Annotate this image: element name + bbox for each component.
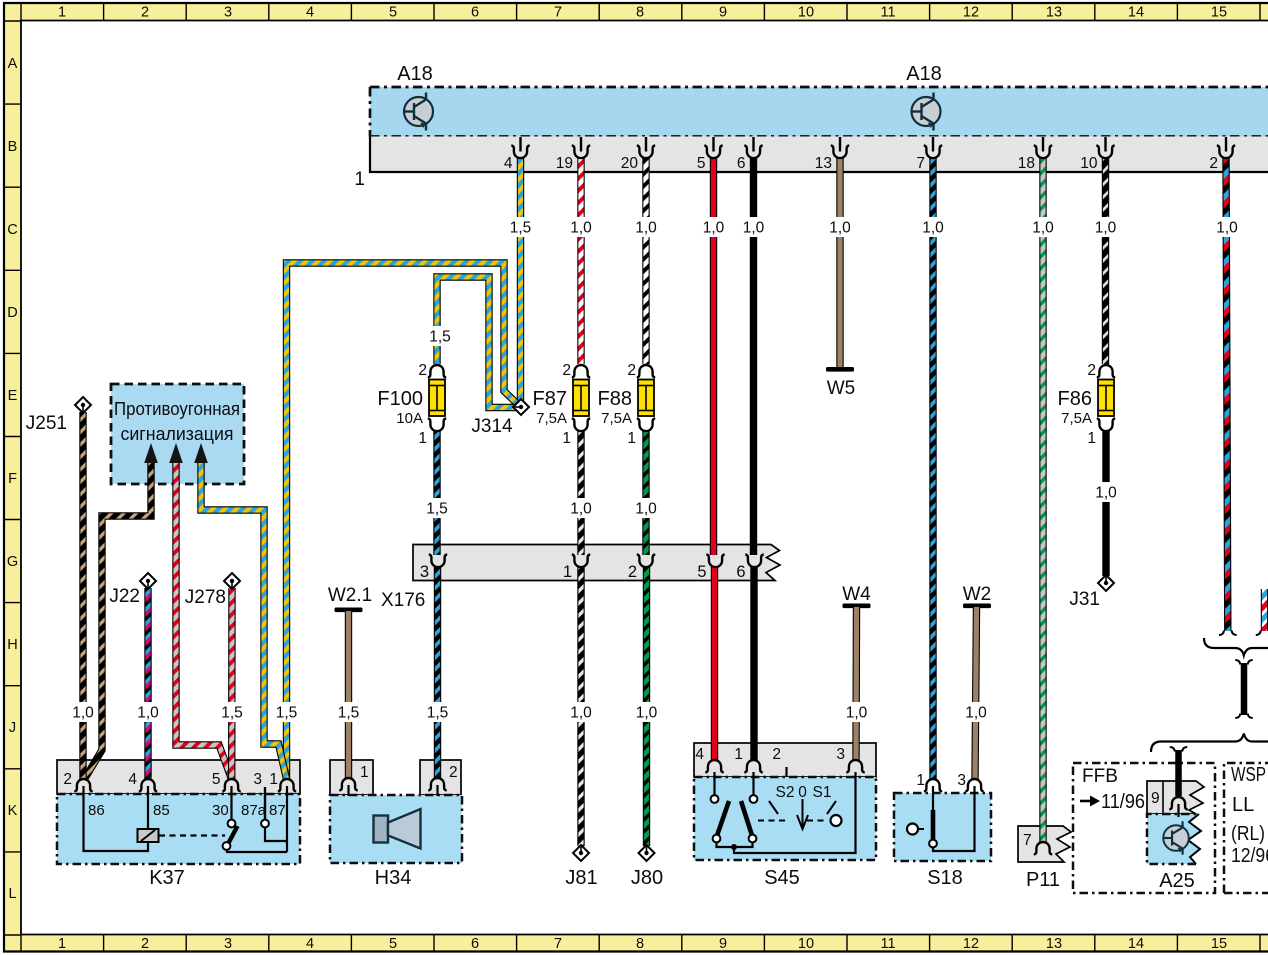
connector J81: [573, 845, 589, 861]
connector J22: [140, 573, 156, 589]
wire size 1,0 pin20: [634, 217, 658, 237]
svg-text:S1: S1: [813, 784, 832, 801]
wire ro/sw/bl strip1 pin 2 down: [1226, 157, 1228, 631]
svg-text:S45: S45: [764, 867, 800, 889]
svg-text:K37: K37: [149, 867, 185, 889]
svg-text:15: 15: [1211, 936, 1227, 952]
strip 1 pin terminals: [511, 146, 529, 159]
connector J80: [639, 845, 655, 861]
wire size 1,0 pin6: [742, 217, 766, 237]
svg-text:11/96: 11/96: [1101, 791, 1145, 813]
svg-text:1: 1: [627, 430, 636, 447]
svg-text:13: 13: [815, 155, 832, 172]
svg-text:3: 3: [420, 563, 429, 581]
strip 1 pin numbers: [504, 137, 1226, 172]
wire black X176 pin 6 to S45 pin 1: [750, 567, 757, 760]
svg-text:J81: J81: [565, 867, 597, 889]
svg-text:G: G: [7, 554, 18, 570]
svg-text:2: 2: [449, 764, 458, 781]
svg-text:1,0: 1,0: [570, 220, 592, 237]
svg-text:6: 6: [736, 563, 745, 581]
svg-text:F100: F100: [377, 388, 423, 410]
wire size 1,0 pin18: [1031, 217, 1055, 237]
wire size 1,5 at pin4: [509, 217, 533, 237]
svg-text:14: 14: [1128, 5, 1144, 21]
svg-text:J22: J22: [109, 586, 140, 607]
wire brown W2.1 to H34 pin 1: [345, 611, 352, 778]
wire bu/ge alarm box to K37 pin 1: [201, 455, 287, 779]
wire ro/gr alarm box to K37 pin 5: [176, 455, 232, 779]
svg-text:9: 9: [719, 936, 727, 952]
svg-text:87a: 87a: [241, 802, 267, 819]
wire end hooks ro/sw/bl: [1219, 631, 1237, 636]
fuse F88: [598, 362, 656, 447]
svg-text:8: 8: [636, 936, 644, 952]
wire size 1,0 pin5: [702, 217, 726, 237]
svg-text:1: 1: [58, 936, 66, 952]
svg-text:D: D: [7, 305, 17, 321]
wire size 1,5 J278: [220, 702, 244, 722]
svg-text:2: 2: [63, 771, 72, 788]
A25 pin terminal: [1169, 797, 1187, 809]
svg-text:W2: W2: [963, 584, 992, 605]
brace gathering pin2/right wires: [1204, 638, 1268, 656]
svg-text:J: J: [9, 720, 16, 736]
terminal W2.1: [328, 585, 372, 606]
wire sw/bl strip1 pin 7 to S18 pin 1: [929, 157, 936, 779]
wire sw/bl F100 to X176 pin 3: [433, 431, 440, 555]
wire size under F87: [569, 498, 593, 518]
svg-text:1,0: 1,0: [570, 501, 592, 518]
svg-text:6: 6: [737, 155, 746, 172]
wire ro/gr from J278 to K37 pin 5: [228, 588, 236, 779]
svg-text:2: 2: [562, 362, 571, 379]
wire size 1,0 J22: [136, 702, 160, 722]
svg-text:J80: J80: [631, 867, 663, 889]
svg-text:7: 7: [916, 155, 925, 172]
control unit A18 band: [370, 87, 1268, 137]
svg-text:F86: F86: [1058, 388, 1092, 410]
fuse F100: [377, 362, 446, 447]
svg-text:86: 86: [88, 802, 105, 819]
svg-text:P11: P11: [1026, 869, 1060, 891]
control unit A25 connector box: [1147, 781, 1204, 814]
svg-text:FFB: FFB: [1082, 766, 1118, 787]
relay K37 box: [57, 760, 300, 864]
svg-text:1: 1: [360, 764, 369, 781]
svg-text:7,5A: 7,5A: [536, 410, 567, 427]
K37 relay coil: [138, 829, 226, 842]
wire bu/ge J314 to F100: [437, 277, 516, 408]
svg-text:1: 1: [1087, 430, 1096, 447]
fuse F87: [533, 362, 591, 447]
svg-text:1: 1: [269, 771, 278, 788]
svg-text:3: 3: [957, 772, 966, 789]
svg-text:1,0: 1,0: [635, 501, 657, 518]
svg-text:1,5: 1,5: [338, 705, 360, 722]
svg-text:1,0: 1,0: [1095, 485, 1117, 502]
svg-text:1,5: 1,5: [276, 705, 298, 722]
svg-text:1,0: 1,0: [137, 705, 159, 722]
connector J278: [224, 573, 240, 589]
wire sw/gr strip1 pin 10 to F86: [1102, 157, 1109, 364]
transistor symbol A18 left: [404, 93, 433, 131]
svg-text:4: 4: [695, 746, 704, 763]
svg-text:C: C: [7, 222, 17, 238]
wire size 1,0 pin7: [921, 217, 945, 237]
svg-text:1: 1: [734, 746, 743, 763]
A25 blue box: [1147, 814, 1201, 864]
K37 internal circuit: [84, 786, 288, 852]
alarm box arrow 1: [144, 443, 158, 463]
alarm box arrow 2: [169, 443, 183, 463]
transistor symbol A18 right: [912, 93, 941, 131]
svg-text:1,0: 1,0: [570, 705, 592, 722]
wire gn/sw F88 to X176 pin 2: [642, 431, 649, 555]
switch S45 box: [694, 743, 876, 860]
wire size to J80: [635, 702, 659, 722]
svg-text:1,0: 1,0: [922, 220, 944, 237]
svg-text:7: 7: [554, 5, 562, 21]
svg-text:1: 1: [563, 563, 572, 581]
wire size 1,0 pin19: [569, 217, 593, 237]
svg-text:2: 2: [1087, 362, 1096, 379]
wire sw/ws F87 to X176 pin 1: [577, 431, 584, 555]
svg-text:L: L: [8, 886, 16, 902]
svg-text:B: B: [8, 139, 18, 155]
svg-text:1,5: 1,5: [426, 501, 448, 518]
svg-text:7,5A: 7,5A: [1061, 410, 1092, 427]
svg-text:12: 12: [963, 5, 979, 21]
S45 pin terminals: [705, 760, 723, 772]
FFB arrow 11/96: [1080, 791, 1145, 813]
wire bu/ge from strip1 pin 4: [517, 157, 524, 401]
A25 feed wire: [1175, 750, 1182, 796]
svg-text:10: 10: [798, 5, 814, 21]
svg-text:1,0: 1,0: [635, 220, 657, 237]
svg-text:1: 1: [562, 430, 571, 447]
svg-text:13: 13: [1046, 5, 1062, 21]
svg-text:11: 11: [880, 936, 895, 952]
svg-text:10: 10: [798, 936, 814, 952]
svg-text:F: F: [8, 471, 17, 487]
connector J314: [513, 399, 529, 415]
svg-text:1,0: 1,0: [965, 705, 987, 722]
svg-text:3: 3: [253, 771, 262, 788]
wire size 1,0 pin13: [828, 217, 852, 237]
connector P11: [1018, 826, 1071, 862]
svg-text:J278: J278: [185, 587, 226, 608]
wire brown W2 to S18 pin 3: [975, 607, 977, 779]
svg-text:7,5A: 7,5A: [601, 410, 632, 427]
svg-text:3: 3: [224, 5, 232, 21]
wire size under F88: [634, 498, 658, 518]
svg-text:Противоугонная: Противоугонная: [114, 399, 240, 419]
X176 pin terminals: [429, 555, 447, 568]
svg-text:6: 6: [471, 5, 479, 21]
wire bl/ws/ro right edge: [1261, 589, 1268, 631]
svg-text:9: 9: [719, 5, 727, 21]
svg-text:F87: F87: [533, 388, 567, 410]
svg-text:5: 5: [697, 563, 706, 581]
wire brown strip1 pin 13 to W5: [836, 157, 843, 367]
wire ws/sw strip1 pin 20 to F88: [642, 157, 649, 364]
svg-text:15: 15: [1211, 5, 1227, 21]
svg-text:1,0: 1,0: [72, 705, 94, 722]
connector strip 1 under A18: [370, 137, 1268, 173]
svg-text:1,5: 1,5: [510, 220, 532, 237]
svg-text:1,0: 1,0: [743, 220, 765, 237]
svg-text:19: 19: [556, 155, 573, 172]
svg-text:A18: A18: [397, 63, 433, 85]
svg-text:2: 2: [628, 563, 637, 581]
wire size 1,5 at F100 branch: [428, 326, 452, 346]
svg-text:14: 14: [1128, 936, 1144, 952]
connector X176 bus bar: [413, 545, 780, 581]
wire end hook bl/ws/ro: [1256, 631, 1261, 636]
anti-theft alarm box (Protivougonnaya signalizatsiya): [111, 384, 244, 484]
svg-text:1: 1: [418, 430, 427, 447]
svg-text:X176: X176: [381, 590, 425, 611]
svg-text:87: 87: [269, 802, 286, 819]
svg-text:сигнализация: сигнализация: [121, 424, 234, 444]
svg-text:A25: A25: [1159, 870, 1195, 892]
svg-text:4: 4: [128, 771, 137, 788]
wire sw/bl X176 pin 3 to H34 pin 2: [434, 567, 441, 778]
svg-text:11: 11: [880, 5, 895, 21]
wire size 1,5 at K37 pin1: [275, 702, 299, 722]
svg-text:J314: J314: [471, 416, 513, 437]
terminal W5: [826, 367, 854, 372]
svg-text:(RL): (RL): [1231, 823, 1265, 845]
svg-text:1: 1: [354, 169, 365, 190]
svg-text:1: 1: [916, 772, 925, 789]
svg-text:13: 13: [1046, 936, 1062, 952]
svg-text:S2: S2: [776, 784, 795, 801]
svg-text:12/96: 12/96: [1231, 845, 1268, 867]
wire black strip1 pin 6 to S45 pin 1: [750, 157, 757, 555]
wire size to J81: [569, 702, 593, 722]
svg-text:F88: F88: [598, 388, 632, 410]
svg-text:10: 10: [1080, 155, 1098, 172]
P11 pin terminal: [1034, 842, 1052, 854]
switch S18 box: [894, 793, 991, 861]
svg-text:3: 3: [836, 746, 845, 763]
H34 pin terminals: [339, 778, 357, 790]
svg-text:A18: A18: [906, 63, 942, 85]
wire size 1,0 W4: [845, 702, 869, 722]
wire size 1,0 pin2: [1215, 217, 1239, 237]
svg-text:1,0: 1,0: [1032, 220, 1054, 237]
svg-text:2: 2: [141, 936, 149, 952]
svg-text:J31: J31: [1069, 589, 1100, 610]
S45 internal switch: [715, 772, 856, 853]
wire gn/gr strip1 pin 18 to P11: [1039, 157, 1046, 842]
svg-text:6: 6: [471, 936, 479, 952]
svg-text:5: 5: [389, 5, 397, 21]
fuse F86: [1058, 362, 1116, 447]
svg-text:0: 0: [798, 784, 807, 801]
svg-text:WSP: WSP: [1231, 764, 1266, 786]
wire mag/sw/cy from J22 to K37 pin 4: [144, 588, 151, 779]
svg-text:2: 2: [141, 5, 149, 21]
wire brown W4 to S45 pin 3: [852, 607, 860, 760]
H34 horn symbol: [374, 809, 421, 849]
wire ro/ws strip1 pin 19 to F87: [577, 157, 584, 364]
K37 terminal names: [88, 802, 286, 819]
svg-text:2: 2: [1209, 155, 1218, 172]
K37 switch contacts 30/87a/87: [223, 820, 269, 850]
svg-text:H: H: [7, 637, 17, 653]
wire black F86 to J31: [1102, 431, 1109, 576]
WSP dashed box: [1224, 763, 1268, 893]
brace distributing to A25/WSP: [1151, 734, 1268, 753]
svg-text:1,5: 1,5: [429, 329, 451, 346]
svg-text:W2.1: W2.1: [328, 585, 372, 606]
svg-text:7: 7: [554, 936, 562, 952]
svg-text:4: 4: [306, 936, 314, 952]
svg-text:9: 9: [1151, 790, 1160, 807]
alarm box arrow 3: [194, 443, 208, 463]
wire gn/sw X176 pin 2 to J80: [643, 567, 650, 846]
wire size 1,0 W2: [964, 702, 988, 722]
svg-text:5: 5: [697, 155, 706, 172]
K37 pin terminals: [74, 779, 92, 791]
wire size 1,0 J251: [71, 702, 95, 722]
svg-text:7: 7: [1023, 832, 1032, 849]
svg-text:30: 30: [212, 802, 229, 819]
svg-text:1,0: 1,0: [1095, 220, 1117, 237]
wire sw/tan from J251 to K37 pin 2: [79, 412, 86, 779]
wire size under F86: [1094, 482, 1118, 502]
svg-text:W5: W5: [827, 378, 856, 399]
svg-text:85: 85: [153, 802, 170, 819]
svg-text:A: A: [8, 56, 18, 72]
svg-text:E: E: [8, 388, 18, 404]
wire bu/ge J314 to K37 pin 1: [287, 263, 518, 779]
svg-text:12: 12: [963, 936, 979, 952]
svg-text:J251: J251: [26, 413, 67, 434]
svg-text:18: 18: [1018, 155, 1035, 172]
horn H34 box: [330, 760, 462, 863]
A25 transistor symbol: [1163, 821, 1189, 854]
svg-text:1,0: 1,0: [636, 705, 658, 722]
svg-text:1,0: 1,0: [846, 705, 868, 722]
wire sw/tan alarm box to K37 pin 2: [85, 455, 152, 779]
svg-text:5: 5: [389, 936, 397, 952]
wire red strip1 pin 5 to S45 pin 4: [710, 157, 717, 555]
svg-text:5: 5: [212, 771, 221, 788]
S18 internal switch: [919, 786, 975, 851]
svg-text:2: 2: [418, 362, 427, 379]
wire red X176 pin 5 to S45 pin 4: [711, 567, 718, 760]
svg-text:10A: 10A: [396, 410, 423, 427]
svg-text:W4: W4: [842, 584, 871, 605]
svg-text:LL: LL: [1232, 794, 1254, 816]
svg-text:3: 3: [224, 936, 232, 952]
wire size 1,5 under F100: [425, 498, 449, 518]
svg-text:4: 4: [306, 5, 314, 21]
svg-text:K: K: [8, 803, 18, 819]
svg-text:4: 4: [504, 155, 513, 172]
svg-text:1,0: 1,0: [703, 220, 725, 237]
svg-text:1,5: 1,5: [427, 705, 449, 722]
wire size 1,5 W2.1: [337, 702, 361, 722]
wire size 1,5 to H34: [426, 702, 450, 722]
wire size 1,0 pin10: [1094, 217, 1118, 237]
S45 lever mechanism S2 0 S1: [776, 784, 832, 801]
svg-text:8: 8: [636, 5, 644, 21]
FFB dashed box: [1073, 763, 1215, 893]
svg-text:1,5: 1,5: [221, 705, 243, 722]
svg-text:2: 2: [627, 362, 636, 379]
link wire between braces: [1235, 660, 1252, 718]
svg-text:1: 1: [58, 5, 66, 21]
svg-text:S18: S18: [927, 867, 963, 889]
connector J251: [75, 397, 91, 413]
wire sw/ws X176 pin 1 to J81: [577, 567, 584, 846]
svg-text:2: 2: [772, 746, 781, 763]
connector J31: [1098, 575, 1114, 591]
svg-text:1,0: 1,0: [1216, 220, 1238, 237]
svg-text:20: 20: [621, 155, 639, 172]
S18 pin terminals: [924, 779, 942, 791]
svg-text:1,0: 1,0: [829, 220, 851, 237]
svg-text:H34: H34: [375, 867, 412, 889]
